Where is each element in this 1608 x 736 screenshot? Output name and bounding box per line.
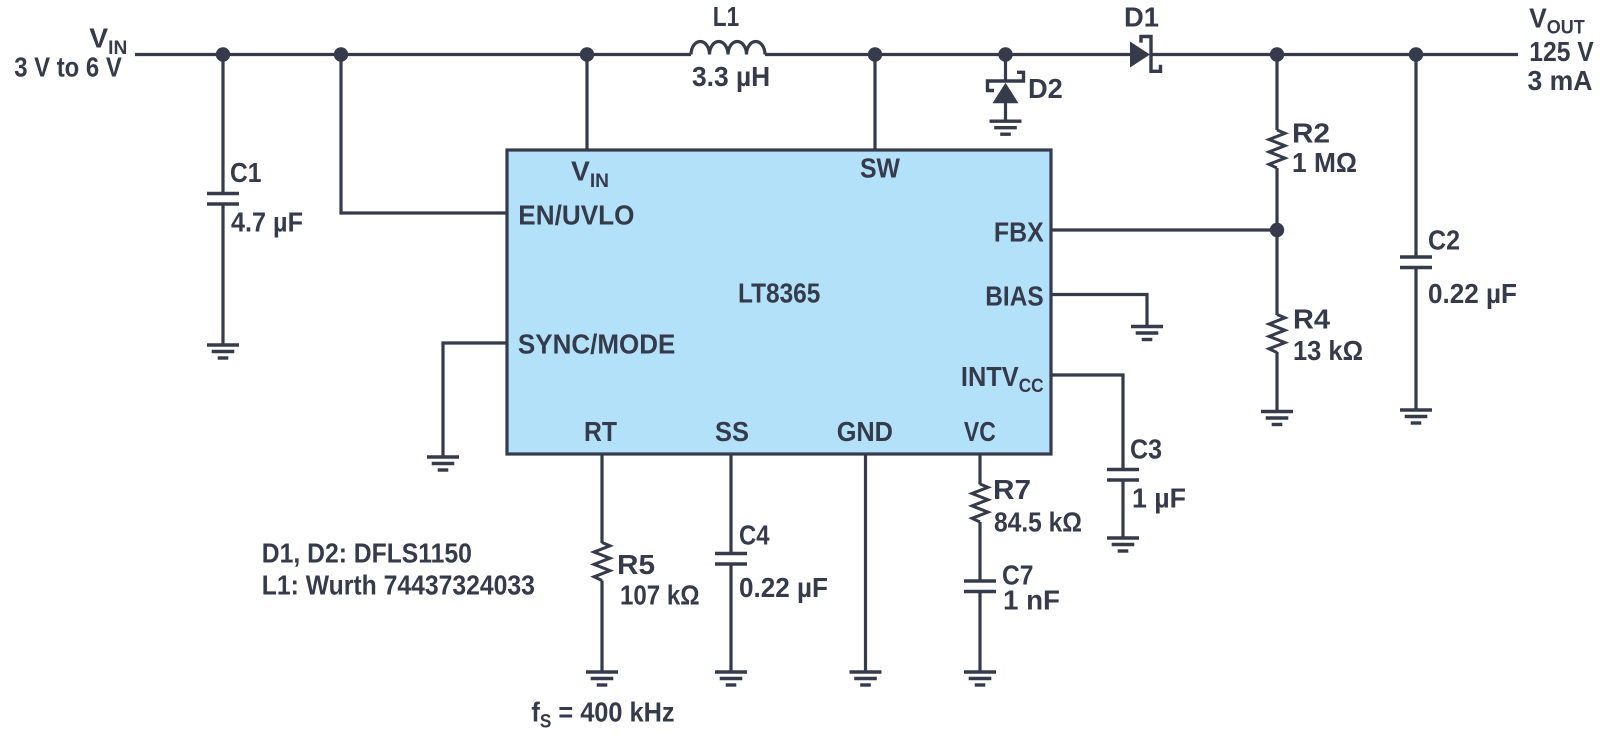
- svg-text:SYNC/MODE: SYNC/MODE: [518, 329, 676, 360]
- node junction C1: [216, 47, 230, 61]
- svg-text:125 V: 125 V: [1529, 36, 1594, 67]
- ground C1: [207, 345, 239, 358]
- ground SYNC/MODE: [427, 457, 459, 470]
- svg-text:GND: GND: [837, 416, 893, 447]
- wire C3 bottom: [1121, 481, 1124, 537]
- wire SYNC/MODE to ground: [443, 343, 507, 456]
- svg-text:SS: SS: [715, 416, 749, 447]
- svg-text:0.22 µF: 0.22 µF: [1428, 278, 1517, 309]
- wire C4 bottom: [729, 565, 732, 671]
- resistor R5: [594, 543, 610, 581]
- svg-text:0.22 µF: 0.22 µF: [739, 572, 828, 603]
- capacitor C1 branch wire top: [221, 55, 224, 193]
- node junction R2: [1270, 47, 1284, 61]
- resistor R7: [972, 484, 988, 522]
- svg-text:1 nF: 1 nF: [1003, 585, 1060, 616]
- wire C2 top: [1414, 55, 1417, 257]
- svg-text:SW: SW: [860, 153, 901, 184]
- resistor R2: [1269, 130, 1285, 168]
- ground C4: [715, 672, 747, 685]
- ground C2: [1400, 410, 1432, 423]
- wire R4 top: [1275, 230, 1278, 315]
- svg-text:R2: R2: [1292, 118, 1330, 149]
- diode D1: [1130, 37, 1161, 72]
- node junction C2: [1409, 47, 1423, 61]
- capacitor C1: [207, 194, 239, 205]
- svg-text:3 V to 6 V: 3 V to 6 V: [14, 52, 122, 83]
- wire R4 bottom: [1275, 352, 1278, 410]
- capacitor C7: [964, 581, 996, 592]
- wire C2 bottom: [1414, 268, 1417, 409]
- svg-text:FBX: FBX: [994, 217, 1044, 248]
- ground D2: [990, 121, 1022, 134]
- svg-text:R5: R5: [617, 549, 655, 580]
- wire C7 bottom: [978, 593, 981, 671]
- svg-text:R7: R7: [993, 474, 1031, 505]
- wire VC pin: [978, 454, 981, 485]
- capacitor C2: [1400, 257, 1432, 268]
- svg-text:1 µF: 1 µF: [1132, 483, 1186, 514]
- inductor L1: [691, 42, 765, 55]
- svg-text:VC: VC: [964, 416, 996, 447]
- svg-text:84.5 kΩ: 84.5 kΩ: [994, 507, 1082, 538]
- svg-text:C4: C4: [739, 520, 770, 551]
- diode D2: [988, 55, 1024, 122]
- ground BIAS: [1131, 327, 1163, 340]
- svg-text:D2: D2: [1028, 73, 1063, 104]
- wire SW pin: [873, 55, 876, 151]
- svg-text:C2: C2: [1428, 225, 1460, 256]
- svg-text:fS = 400 kHz: fS = 400 kHz: [531, 697, 674, 733]
- node junction EN: [334, 47, 348, 61]
- node junction SW pin: [868, 47, 882, 61]
- ground C7: [964, 672, 996, 685]
- wire RT pin: [600, 454, 603, 543]
- ground GND pin: [850, 672, 882, 685]
- svg-text:L1: L1: [713, 1, 739, 32]
- wire EN/UVLO: [341, 55, 507, 214]
- svg-text:VOUT: VOUT: [1529, 3, 1585, 39]
- IC U1 LT8365 box: [507, 150, 1051, 454]
- wire main rail middle: [765, 53, 1130, 56]
- wire C1 bottom: [221, 205, 224, 344]
- capacitor C4: [715, 554, 747, 565]
- wire BIAS: [1051, 295, 1147, 326]
- capacitor C3: [1107, 470, 1139, 481]
- wire R5 bottom: [600, 581, 603, 671]
- svg-text:RT: RT: [584, 416, 617, 447]
- svg-text:LT8365: LT8365: [738, 278, 820, 309]
- wire INTVCC: [1051, 375, 1123, 468]
- svg-text:C1: C1: [230, 157, 262, 188]
- ground R4: [1261, 412, 1293, 425]
- node FBX junction: [1270, 223, 1284, 237]
- svg-text:D1, D2: DFLS1150: D1, D2: DFLS1150: [262, 537, 472, 568]
- wire main rail left: [135, 53, 691, 56]
- svg-text:3.3 µH: 3.3 µH: [692, 61, 770, 92]
- wire FBX: [1051, 228, 1277, 231]
- ground C3: [1107, 538, 1139, 551]
- svg-text:D1: D1: [1124, 2, 1159, 33]
- wire SS pin: [729, 454, 732, 552]
- svg-text:BIAS: BIAS: [985, 281, 1043, 312]
- svg-text:L1: Wurth 74437324033: L1: Wurth 74437324033: [262, 570, 535, 601]
- node junction D2: [998, 47, 1012, 61]
- svg-text:1 MΩ: 1 MΩ: [1292, 147, 1357, 178]
- svg-text:4.7 µF: 4.7 µF: [231, 207, 303, 238]
- svg-text:3 mA: 3 mA: [1528, 65, 1593, 96]
- ground R5: [586, 672, 618, 685]
- svg-text:C3: C3: [1130, 434, 1162, 465]
- wire GND pin: [864, 454, 867, 671]
- wire R2 top: [1275, 55, 1278, 131]
- svg-text:13 kΩ: 13 kΩ: [1293, 335, 1363, 366]
- wire R7 bottom: [978, 522, 981, 580]
- wire VIN pin: [585, 55, 588, 151]
- wire R2 bottom: [1275, 168, 1278, 230]
- svg-text:R4: R4: [1293, 304, 1330, 335]
- node junction VIN pin: [580, 47, 594, 61]
- resistor R4: [1269, 315, 1285, 353]
- wire main rail right: [1151, 53, 1518, 56]
- svg-text:EN/UVLO: EN/UVLO: [518, 200, 634, 231]
- svg-text:107 kΩ: 107 kΩ: [620, 580, 700, 611]
